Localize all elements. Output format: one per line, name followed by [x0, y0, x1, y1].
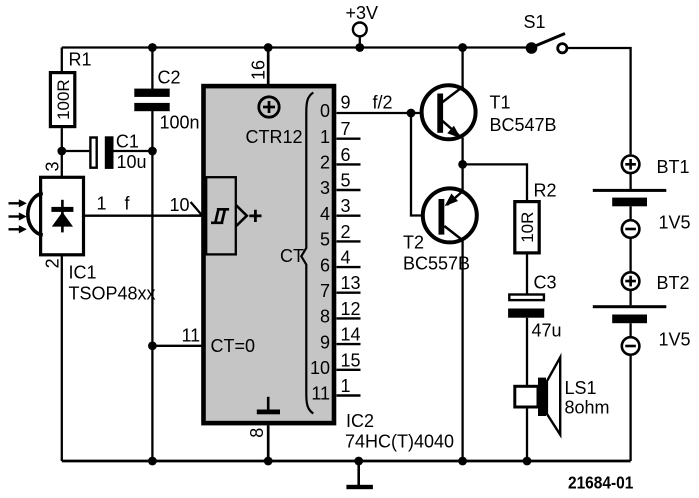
svg-text:R2: R2 — [534, 181, 557, 201]
svg-text:T1: T1 — [490, 93, 511, 113]
svg-text:LS1: LS1 — [565, 378, 597, 398]
node: rail junction speaker — [523, 457, 532, 466]
svg-text:8ohm: 8ohm — [565, 398, 610, 418]
svg-text:7: 7 — [320, 281, 330, 301]
capacitor C2 100n — [134, 48, 199, 152]
svg-text:10R: 10R — [518, 212, 537, 243]
wire: +3V top rail left segment — [62, 46, 532, 48]
dynamic input wedge pin 10 — [190, 202, 203, 216]
battery BT1 1V5 — [593, 156, 691, 272]
node: junction C2 top — [148, 43, 157, 52]
svg-text:21684-01: 21684-01 — [568, 472, 633, 492]
inside Q labels — [310, 101, 330, 404]
svg-text:10: 10 — [310, 358, 330, 378]
svg-text:47u: 47u — [532, 321, 562, 341]
node: rail junction ground symbol — [354, 457, 363, 466]
plus sign — [249, 210, 261, 222]
resistor R1 — [50, 48, 91, 152]
svg-text:IC2: IC2 — [346, 411, 374, 431]
svg-text:9: 9 — [341, 93, 351, 113]
outside pin numbers — [341, 93, 361, 397]
transistor T2 BC557B — [403, 164, 477, 461]
photodiode inside IC1 — [51, 200, 73, 233]
svg-text:3: 3 — [341, 196, 351, 216]
svg-text:14: 14 — [341, 325, 361, 345]
svg-text:5: 5 — [341, 171, 351, 191]
transistor T1 BC547B — [422, 48, 557, 165]
svg-text:CT: CT — [280, 246, 304, 266]
node: rail junction ground line — [148, 457, 157, 466]
svg-text:100n: 100n — [160, 113, 200, 133]
loudspeaker LS1 — [515, 357, 610, 461]
IR arrows — [9, 199, 27, 233]
wire: f signal IC1 pin1 to IC2 pin10 — [84, 194, 202, 216]
svg-text:BT1: BT1 — [657, 157, 690, 177]
svg-text:16: 16 — [249, 60, 269, 80]
svg-text:9: 9 — [320, 332, 330, 352]
svg-text:8: 8 — [247, 428, 267, 438]
svg-text:1: 1 — [341, 376, 351, 396]
svg-text:1: 1 — [320, 127, 330, 147]
svg-text:74HC(T)4040: 74HC(T)4040 — [345, 431, 454, 451]
svg-text:10: 10 — [169, 195, 189, 215]
svg-text:+3V: +3V — [346, 3, 379, 23]
output wedge — [236, 205, 247, 226]
svg-text:6: 6 — [341, 145, 351, 165]
svg-text:0: 0 — [320, 101, 330, 121]
IC2 power symbol — [259, 97, 279, 117]
svg-text:11: 11 — [311, 384, 330, 404]
svg-text:C2: C2 — [158, 67, 181, 87]
IC2 body — [204, 86, 335, 423]
node: rail junction T2 collector — [458, 457, 467, 466]
clock input inner box — [206, 177, 236, 254]
svg-text:f/2: f/2 — [373, 92, 393, 112]
capacitor C3 47u — [508, 273, 561, 387]
svg-text:T2: T2 — [403, 233, 424, 253]
ground symbol — [346, 461, 373, 489]
svg-text:2: 2 — [320, 153, 330, 173]
wire: bottom ground rail — [62, 460, 631, 463]
wire: ground line x=152 down — [151, 151, 153, 346]
IC2 output pins — [310, 93, 361, 404]
svg-text:BC557B: BC557B — [403, 254, 470, 274]
svg-text:R1: R1 — [69, 50, 92, 70]
pin stubs Q1-Q11 — [337, 139, 361, 396]
svg-text:CTR12: CTR12 — [246, 127, 303, 147]
power terminal +3V — [346, 3, 379, 48]
svg-text:10u: 10u — [117, 152, 147, 172]
node: junction T1 emitter / T2 emitter / R2 — [458, 160, 467, 169]
svg-text:2: 2 — [43, 258, 63, 268]
node: junction R1/C1/IC1 — [57, 147, 66, 156]
reset CT=0 — [152, 345, 201, 347]
switch S1 — [524, 12, 567, 54]
node: junction base split — [407, 109, 416, 118]
svg-text:CT=0: CT=0 — [211, 336, 256, 356]
node: rail junction pin8 — [264, 457, 273, 466]
svg-text:100R: 100R — [54, 79, 73, 120]
svg-text:4: 4 — [320, 204, 330, 224]
svg-text:1: 1 — [97, 194, 107, 214]
svg-text:13: 13 — [341, 273, 361, 293]
node: junction T1 collector — [458, 43, 467, 52]
node: junction C1/C2/ground line — [148, 147, 157, 156]
wire: T2 base drop — [411, 113, 439, 216]
svg-text:8: 8 — [320, 307, 330, 327]
resistor R2 10R — [463, 164, 557, 294]
svg-text:4: 4 — [341, 248, 351, 268]
svg-text:3: 3 — [42, 161, 62, 171]
svg-text:15: 15 — [341, 350, 361, 370]
IC1 lens — [28, 193, 43, 235]
svg-text:S1: S1 — [524, 12, 546, 32]
IC2 ground bar pin 8 — [257, 397, 280, 415]
svg-text:3: 3 — [320, 178, 330, 198]
svg-text:6: 6 — [320, 255, 330, 275]
IC1 TSOP48xx — [9, 151, 156, 461]
svg-text:C1: C1 — [116, 131, 139, 151]
battery BT2 1V5 — [593, 272, 691, 461]
schmitt trigger symbol — [211, 209, 229, 223]
CT bracket — [301, 93, 313, 414]
svg-text:1V5: 1V5 — [659, 329, 691, 349]
svg-text:7: 7 — [341, 119, 351, 139]
wire: f/2 from pin 9 to T1 base — [337, 92, 438, 113]
svg-text:IC1: IC1 — [69, 263, 97, 283]
svg-text:1V5: 1V5 — [659, 213, 691, 233]
svg-text:2: 2 — [341, 222, 351, 242]
pin 16 wire — [267, 48, 270, 87]
svg-text:5: 5 — [320, 230, 330, 250]
IC2 74HC(T)4040 — [148, 48, 454, 462]
svg-text:TSOP48xx: TSOP48xx — [69, 284, 156, 304]
svg-text:C3: C3 — [534, 273, 557, 293]
wire: top rail right segment S1 to battery corner — [568, 48, 631, 154]
node: junction pin16 — [264, 43, 273, 52]
svg-text:BC547B: BC547B — [490, 115, 557, 135]
node: junction +3V — [355, 43, 364, 52]
capacitor C1 10u — [62, 131, 153, 172]
svg-text:BT2: BT2 — [657, 273, 690, 293]
svg-text:11: 11 — [182, 325, 201, 345]
svg-text:12: 12 — [341, 299, 361, 319]
